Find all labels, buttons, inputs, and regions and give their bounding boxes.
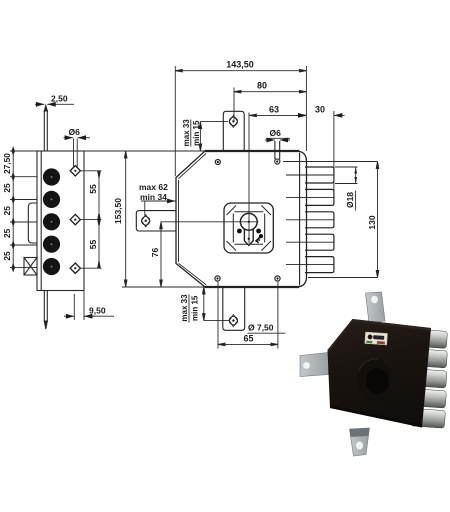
left view top rod [44, 106, 47, 152]
photo: lock body [328, 319, 432, 428]
top mounting tab [223, 111, 244, 151]
bolt B2 [286, 189, 334, 205]
key icon [254, 233, 264, 243]
cylinder escutcheon plate [224, 203, 273, 253]
photo: round boss [357, 359, 392, 398]
dimension 143,50 [175, 66, 306, 176]
knob K1 [43, 168, 60, 185]
dimension diameter 18 [335, 167, 358, 211]
photo: body top highlight [328, 319, 432, 352]
photo: bolt P3 [413, 369, 447, 388]
photo: bolt P4 [412, 389, 446, 408]
dimension 9,50 [64, 291, 114, 320]
dimension max 33 min 15 top [191, 120, 228, 152]
dimension 30 [296, 111, 345, 190]
knob K3 [43, 213, 60, 230]
svg-text:min 15: min 15 [192, 120, 201, 146]
dimension max 33 min 15 bottom [189, 287, 230, 323]
bolt B5 [286, 257, 334, 273]
photo: bolt P2 [415, 349, 448, 368]
bolt B4 [286, 234, 334, 250]
screw hole top-left [215, 160, 220, 165]
bottom tab hole [229, 315, 237, 327]
photo: left bracket [300, 353, 329, 377]
svg-text:55: 55 [88, 240, 98, 250]
svg-text:9,50: 9,50 [89, 306, 106, 316]
photo: bolt P1 [415, 329, 448, 348]
svg-text:55: 55 [88, 184, 98, 194]
svg-text:Ø 7,50: Ø 7,50 [248, 323, 274, 333]
svg-text:25: 25 [2, 228, 12, 238]
photo: brand label [365, 332, 388, 345]
bottom mounting tab [223, 287, 245, 330]
dimension 130 [283, 162, 379, 278]
svg-text:27,50: 27,50 [2, 153, 12, 174]
dimension max 62 min 34 [141, 201, 176, 216]
photo: bottom bracket [350, 428, 370, 456]
svg-text:130: 130 [367, 215, 377, 229]
diamond hole D3 [70, 263, 80, 273]
svg-text:max 33: max 33 [182, 119, 191, 147]
dimension 2,50 [35, 103, 74, 105]
screw hole bottom-left [215, 276, 220, 281]
left tab hole [142, 215, 150, 227]
left mounting tab [136, 211, 176, 231]
left view bottom rod [44, 291, 47, 330]
photo: bottom bracket shadow [350, 428, 370, 437]
dimension 153,50 [124, 151, 127, 287]
svg-text:Ø6: Ø6 [270, 128, 282, 138]
dimension 76 [160, 222, 163, 287]
knob K4 [43, 236, 60, 253]
top edge extension line [10, 150, 205, 152]
svg-text:2,50: 2,50 [51, 94, 68, 104]
svg-text:min 34: min 34 [140, 192, 167, 202]
dimension 63 [249, 114, 306, 117]
left view bottom bracket x-section [24, 258, 37, 276]
dimension diameter 7,50 [248, 332, 286, 334]
bottom edge extension line [122, 286, 205, 288]
euro cylinder keyhole [236, 205, 259, 245]
photo: top bracket [366, 292, 386, 323]
svg-text:Ø18: Ø18 [345, 192, 355, 208]
svg-text:max 62: max 62 [139, 182, 168, 192]
dimension diameter 6 main view [265, 138, 290, 140]
svg-text:Ø6: Ø6 [69, 127, 81, 137]
cylinder side dot left [237, 229, 242, 234]
left view case [37, 151, 84, 291]
photo: bolt P5 [410, 408, 445, 428]
svg-text:max 33: max 33 [180, 294, 189, 322]
dimension diameter 6 left view [64, 138, 91, 167]
svg-text:153,50: 153,50 [113, 198, 123, 224]
svg-text:63: 63 [269, 105, 279, 115]
knob K5 [43, 258, 60, 275]
crosshair horizontal (76 extension) [161, 221, 236, 223]
cylinder side dot right [256, 229, 261, 234]
knob K2 [43, 191, 60, 208]
svg-text:25: 25 [2, 183, 12, 193]
diamond hole D2 [70, 214, 80, 224]
photo: body bottom shade [330, 406, 422, 428]
bolt B3 [286, 212, 334, 228]
dimension 80 [234, 88, 306, 122]
svg-text:30: 30 [315, 105, 325, 115]
svg-text:76: 76 [150, 248, 160, 258]
dimension 55 / 55 [80, 171, 102, 268]
diamond hole D1 [70, 166, 80, 176]
hole diameter 6 top-right with slot [275, 141, 280, 164]
dimension 65 [218, 282, 278, 349]
left view left tab [28, 203, 37, 243]
svg-text:min 15: min 15 [190, 295, 199, 321]
screw hole bottom-right [275, 276, 280, 281]
main body outline [176, 151, 307, 287]
dimension chain 27,50 / 25 x4 [10, 147, 37, 271]
svg-text:80: 80 [257, 81, 267, 91]
top tab hole [229, 115, 237, 127]
svg-text:65: 65 [243, 334, 253, 344]
crosshair vertical (63 extension) [248, 113, 250, 206]
svg-text:25: 25 [2, 251, 12, 261]
svg-text:25: 25 [2, 206, 12, 216]
svg-text:143,50: 143,50 [226, 60, 254, 70]
bolt B1 [286, 167, 334, 183]
